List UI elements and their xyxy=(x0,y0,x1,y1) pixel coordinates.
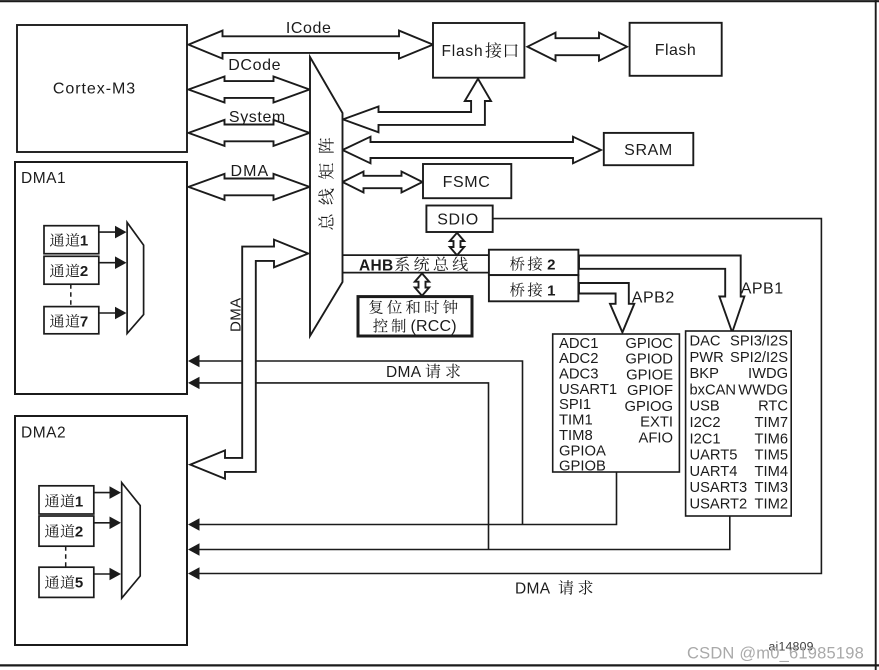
svg-text:(RCC): (RCC) xyxy=(411,318,457,335)
svg-text:2: 2 xyxy=(547,257,555,274)
svg-text:USB: USB xyxy=(690,399,720,415)
svg-text:RTC: RTC xyxy=(758,399,788,415)
svg-text:SPI1: SPI1 xyxy=(559,397,591,413)
box RCC 复位和时钟控制 xyxy=(358,297,472,336)
label 桥接2 xyxy=(510,256,525,270)
svg-text:I2C2: I2C2 xyxy=(690,415,721,431)
svg-text:APB2: APB2 xyxy=(632,290,675,307)
svg-text:CSDN @m0_61985198: CSDN @m0_61985198 xyxy=(687,645,864,663)
arrow APB2 pipe (bridge1 to APB2 peripherals) xyxy=(579,283,634,332)
mux trapezoid DMA2 xyxy=(122,483,141,599)
box DMA1 channel 1 xyxy=(44,226,99,254)
arrow DMA1 channel 7 to mux xyxy=(99,312,121,314)
box DMA1 xyxy=(15,162,187,394)
label 桥接1 xyxy=(510,282,525,296)
bus matrix trapezoid xyxy=(310,57,343,336)
svg-text:FSMC: FSMC xyxy=(443,174,491,191)
dashed line DMA2 channels continuation xyxy=(65,546,67,567)
wire APB1 peripherals to DMA2 request xyxy=(190,516,730,550)
svg-text:2: 2 xyxy=(80,263,88,280)
arrowhead request into DMA2 from APB2 xyxy=(188,518,200,530)
svg-text:SPI3/I2S: SPI3/I2S xyxy=(730,334,788,350)
svg-text:I2C1: I2C1 xyxy=(690,431,721,447)
arrow DMA1 channel 1 to mux xyxy=(99,231,121,233)
arrow DMA (DMA1 to bus matrix) xyxy=(189,174,310,200)
arrow DMA2 channel 5 to mux xyxy=(94,573,116,575)
wire branch APB2 request to DMA1 xyxy=(190,361,523,525)
box APB1 peripherals xyxy=(686,331,792,516)
box SDIO xyxy=(426,206,492,233)
svg-text:PWR: PWR xyxy=(690,350,724,366)
arrow DMA2 channel 2 to mux xyxy=(94,522,116,524)
label 通道7 xyxy=(50,314,64,327)
svg-text:GPIOE: GPIOE xyxy=(626,367,673,383)
box DMA1 channel 7 xyxy=(44,307,99,334)
label 通道2 xyxy=(50,264,64,277)
svg-text:USART3: USART3 xyxy=(690,480,748,496)
svg-text:USART2: USART2 xyxy=(690,497,748,513)
svg-text:UART4: UART4 xyxy=(690,464,738,480)
svg-text:TIM8: TIM8 xyxy=(559,428,593,444)
svg-text:DMA2: DMA2 xyxy=(21,425,66,442)
arrow small vertical AHB bus to RCC xyxy=(415,273,429,295)
svg-text:Flash: Flash xyxy=(655,42,697,59)
svg-text:DAC: DAC xyxy=(690,334,721,350)
arrowhead request into DMA1 lower xyxy=(188,377,200,389)
svg-text:System: System xyxy=(229,109,286,126)
arrow DMA2 channel 1 to mux xyxy=(94,492,116,494)
label 通道2 xyxy=(45,524,59,537)
svg-text:5: 5 xyxy=(75,575,83,592)
svg-text:GPIOD: GPIOD xyxy=(625,352,673,368)
label bus matrix (vertical text) xyxy=(318,215,333,230)
svg-text:DMA: DMA xyxy=(515,581,551,598)
arrowhead request into DMA1 upper xyxy=(188,355,200,367)
arrowhead request into DMA2 from SDIO xyxy=(188,567,200,579)
arrow L-shaped bus matrix to Flash interface xyxy=(343,79,491,133)
svg-text:EXTI: EXTI xyxy=(640,415,673,431)
label 通道5 xyxy=(45,575,59,588)
label 控制(RCC) xyxy=(373,319,388,333)
box DMA2 channel 2 xyxy=(39,516,94,546)
svg-text:UART5: UART5 xyxy=(690,448,738,464)
svg-text:1: 1 xyxy=(75,493,83,510)
svg-text:DMA: DMA xyxy=(230,163,269,180)
svg-text:SDIO: SDIO xyxy=(437,211,479,228)
arrow DMA1 channel 2 to mux xyxy=(99,262,121,264)
svg-text:GPIOA: GPIOA xyxy=(559,443,606,459)
box Flash interface xyxy=(433,23,524,78)
svg-text:TIM4: TIM4 xyxy=(755,464,788,480)
box DMA2 channel 1 xyxy=(39,486,94,514)
wire AHB system bus lower line xyxy=(340,272,489,274)
svg-text:ADC1: ADC1 xyxy=(559,336,598,352)
svg-text:2: 2 xyxy=(75,524,83,541)
mux trapezoid DMA1 xyxy=(127,222,144,333)
svg-text:DMA: DMA xyxy=(386,364,422,381)
svg-text:WWDG: WWDG xyxy=(738,382,788,398)
box Flash xyxy=(630,23,722,76)
arrowhead request into DMA2 from APB1 xyxy=(188,543,200,555)
svg-text:Flash: Flash xyxy=(442,43,484,60)
arrow System (Cortex-M3 to bus matrix) xyxy=(189,120,310,146)
svg-text:AFIO: AFIO xyxy=(638,430,673,446)
svg-text:7: 7 xyxy=(80,314,88,331)
box bridge 1 (桥接1) xyxy=(489,275,579,301)
svg-text:TIM3: TIM3 xyxy=(755,480,788,496)
svg-text:TIM5: TIM5 xyxy=(755,448,788,464)
svg-text:GPIOG: GPIOG xyxy=(624,399,673,415)
svg-text:Cortex-M3: Cortex-M3 xyxy=(53,81,136,98)
svg-text:USART1: USART1 xyxy=(559,382,617,398)
svg-text:SPI2/I2S: SPI2/I2S xyxy=(730,350,788,366)
svg-text:TIM1: TIM1 xyxy=(559,413,593,429)
svg-text:AHB: AHB xyxy=(359,257,393,274)
box APB2 peripherals xyxy=(553,334,680,472)
dashed line DMA1 channels continuation xyxy=(70,284,72,306)
arrow small vertical SDIO to AHB bus xyxy=(450,233,464,256)
arrow bus matrix to FSMC xyxy=(343,172,423,193)
wire APB2 peripherals to DMA2 request xyxy=(190,472,617,525)
svg-text:TIM6: TIM6 xyxy=(755,431,788,447)
box FSMC xyxy=(423,164,511,198)
wire AHB system bus upper line xyxy=(338,254,489,256)
arrow APB1 pipe (bridge2 to APB1 peripherals) xyxy=(579,256,744,333)
wire SDIO to DMA2 request (right side + bottom) xyxy=(190,219,821,574)
svg-text:IWDG: IWDG xyxy=(748,366,788,382)
arrow bus matrix to SRAM xyxy=(343,137,602,164)
svg-text:TIM2: TIM2 xyxy=(755,497,788,513)
svg-text:1: 1 xyxy=(80,233,88,250)
svg-text:GPIOC: GPIOC xyxy=(625,336,673,352)
svg-text:GPIOB: GPIOB xyxy=(559,459,606,475)
box DMA1 channel 2 xyxy=(44,256,99,284)
box DMA2 channel 5 xyxy=(39,567,94,597)
arrow vertical pipe DMA2 to bus matrix (DMA) xyxy=(190,240,308,479)
svg-text:BKP: BKP xyxy=(690,366,720,382)
svg-text:DMA1: DMA1 xyxy=(21,170,66,187)
box bridge 2 (桥接2) xyxy=(489,250,579,275)
svg-text:SRAM: SRAM xyxy=(624,142,673,159)
svg-text:TIM7: TIM7 xyxy=(755,415,788,431)
svg-text:DMA: DMA xyxy=(228,297,245,332)
svg-text:APB1: APB1 xyxy=(741,281,784,298)
svg-text:bxCAN: bxCAN xyxy=(690,382,737,398)
box Cortex-M3 xyxy=(17,25,187,152)
svg-text:ICode: ICode xyxy=(286,20,332,37)
svg-text:DCode: DCode xyxy=(228,57,281,74)
svg-text:GPIOF: GPIOF xyxy=(627,383,673,399)
svg-text:ADC3: ADC3 xyxy=(559,367,598,383)
svg-text:1: 1 xyxy=(547,283,555,300)
arrow DCode (Cortex-M3 to bus matrix) xyxy=(189,77,310,103)
box DMA2 xyxy=(15,416,187,645)
box SRAM xyxy=(604,133,694,165)
label 通道1 xyxy=(45,494,59,507)
wire branch APB1 request to DMA1 xyxy=(190,383,489,550)
arrow ICode (Cortex-M3 to Flash interface) xyxy=(189,31,434,59)
arrow Flash interface to Flash xyxy=(528,33,628,61)
label 复位和时钟 xyxy=(369,300,383,314)
label 通道1 xyxy=(50,233,64,246)
svg-text:ADC2: ADC2 xyxy=(559,351,598,367)
